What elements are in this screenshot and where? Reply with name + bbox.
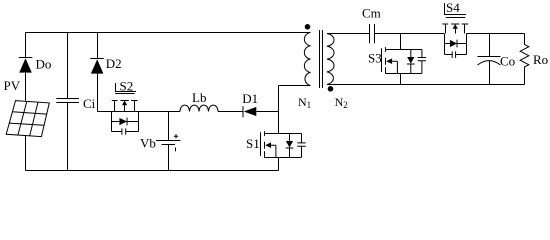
svg-text:Ci: Ci	[83, 96, 96, 111]
wire: Lb to D1	[218, 111, 243, 113]
wire: junction vertical (D1 / transformer / S1 drain)	[278, 86, 280, 134]
transformer winding N2	[327, 34, 334, 85]
MOSFET S1 (with body diode and capacitor)	[261, 131, 306, 170]
svg-text:S4: S4	[446, 0, 460, 15]
MOSFET S2 (with body diode and capacitor)	[112, 83, 139, 135]
MOSFET S4 (with body diode and capacitor)	[442, 3, 468, 58]
svg-text:S1: S1	[246, 136, 260, 151]
wire: top rail (primary side)	[26, 32, 311, 34]
wire: bottom rail (primary side)	[26, 170, 279, 172]
svg-text:D1: D1	[242, 91, 258, 106]
battery Vb	[156, 112, 181, 171]
svg-text:Ro: Ro	[533, 52, 548, 67]
wire: Cm to S4	[375, 33, 445, 35]
capacitor Co (polarized)	[478, 57, 501, 85]
svg-text:N2: N2	[335, 95, 348, 110]
diode D1	[243, 106, 279, 117]
resistor Ro	[520, 34, 529, 85]
MOSFET S3 (with body diode and capacitor)	[382, 47, 427, 84]
svg-text:Cm: Cm	[362, 6, 381, 21]
svg-text:PV: PV	[4, 78, 21, 93]
wire: PV bottom to rail	[25, 136, 27, 171]
PV panel	[6, 101, 49, 137]
svg-text:Lb: Lb	[192, 90, 206, 105]
wire: secondary bottom rail	[327, 84, 525, 86]
wire: S2 to Lb	[139, 111, 181, 113]
svg-text:D2: D2	[106, 56, 122, 71]
svg-text:Vb: Vb	[140, 136, 156, 151]
diode D2	[90, 33, 111, 112]
svg-text:S3: S3	[368, 50, 382, 65]
diode Do	[19, 33, 33, 101]
transformer winding N1	[304, 33, 310, 86]
wire: primary winding bottom lead	[279, 85, 311, 87]
svg-text:S2: S2	[120, 79, 134, 94]
wire: Co branch top	[489, 34, 491, 57]
wire: S3 drain vertical	[400, 34, 402, 50]
capacitor Ci	[56, 33, 79, 171]
transformer T1 core	[320, 30, 323, 88]
svg-text:Co: Co	[500, 54, 515, 69]
transformer T1 dot (N2 polarity)	[328, 86, 334, 92]
wire: N2 top to Cm	[327, 33, 370, 35]
wire: S4 to output corner	[467, 33, 525, 35]
inductor Lb	[180, 105, 218, 111]
transformer T1 dot (N1 polarity)	[305, 24, 311, 30]
svg-text:Do: Do	[36, 57, 52, 72]
svg-text:N1: N1	[298, 95, 311, 110]
capacitor Cm	[370, 24, 375, 43]
